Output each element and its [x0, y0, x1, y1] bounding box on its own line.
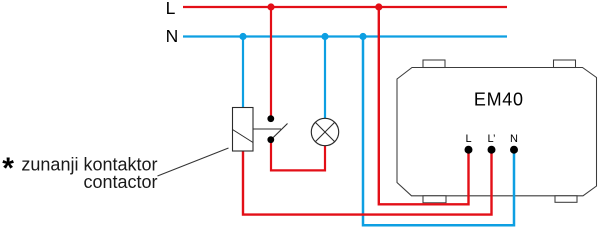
EM40 terminal node N	[510, 146, 518, 154]
wire switch bottom to lamp bottom	[271, 140, 325, 171]
wire N feed to EM40 terminal N	[363, 37, 514, 226]
junction L to EM40	[375, 3, 382, 10]
wire L feed to EM40 terminal L	[379, 7, 469, 204]
junction N to EM40	[359, 33, 366, 40]
junction N to lamp	[321, 33, 328, 40]
EM40 top fixing tab right	[554, 60, 576, 68]
svg-text:contactor: contactor	[83, 172, 157, 192]
EM40 bottom fixing tab right	[555, 196, 577, 203]
EM40 terminal node L	[465, 146, 473, 154]
annotation leader line	[158, 148, 229, 176]
EM40 terminal node L'	[488, 146, 496, 154]
wire N to lamp top	[324, 37, 326, 120]
svg-text:L: L	[465, 133, 471, 145]
EM40 top fixing tab left	[423, 60, 445, 68]
svg-text:*: *	[2, 152, 14, 185]
wire coil bottom to EM40 terminal L'	[243, 150, 492, 215]
wire N to coil top	[242, 37, 244, 108]
contactor K1 coil	[233, 108, 254, 152]
wire L to switch top	[270, 7, 272, 119]
lamp E1	[311, 118, 338, 145]
svg-text:L: L	[166, 0, 176, 18]
svg-text:EM40: EM40	[474, 89, 524, 109]
svg-text:N: N	[166, 26, 179, 46]
wire N bus	[183, 35, 507, 37]
svg-text:L’: L’	[488, 133, 496, 145]
svg-text:N: N	[510, 133, 518, 145]
EM40 bottom fixing tab left	[423, 196, 446, 203]
switch S1 (contactor contact)	[253, 115, 288, 143]
wire L bus	[183, 6, 507, 8]
EM40 module body	[397, 68, 597, 196]
junction N to contactor coil	[239, 33, 246, 40]
junction L to switch	[267, 3, 274, 10]
